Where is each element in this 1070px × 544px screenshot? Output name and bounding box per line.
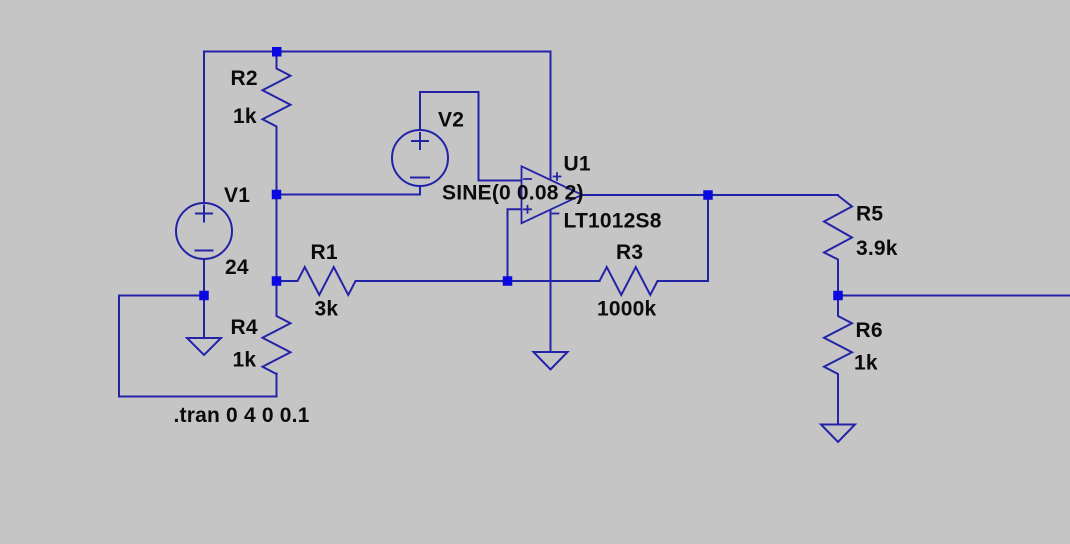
svg-text:3.9k: 3.9k [856,237,898,260]
junction op-amp output [703,190,713,200]
ground G3 (below R6) [821,425,855,443]
svg-text:R4: R4 [231,316,258,339]
resistor R6 [824,296,852,425]
svg-text:R2: R2 [231,67,258,90]
svg-text:LT1012S8: LT1012S8 [564,210,662,233]
wire op-amp output to node [582,194,708,196]
svg-text:R3: R3 [616,241,643,264]
wire V1 minus loop to R4 bottom [119,296,277,397]
wire mid column junction to R1 junction [276,195,278,282]
wire R1 to R3 segment [508,280,600,282]
svg-text:SINE(0 0.08 2): SINE(0 0.08 2) [442,182,584,205]
wire R3 right lead up to output node [707,195,709,281]
junction non-inverting node [503,276,513,286]
svg-text:1k: 1k [233,105,257,128]
junction R1 left [272,276,282,286]
wire op-amp V- pin to ground [550,210,552,352]
svg-text:R1: R1 [311,241,338,264]
junction V1/V2/R2 node [272,190,282,200]
resistor R1 [277,267,508,295]
svg-text:V2: V2 [438,109,464,132]
svg-text:R5: R5 [856,203,883,226]
junction top rail / R2 [272,47,282,57]
svg-text:24: 24 [225,256,249,279]
resistor R2 [263,52,291,195]
wire left column to V1 top [203,52,205,204]
voltage source V1 [176,203,232,259]
wire top rail [204,51,551,53]
junction V1 minus [199,291,209,301]
svg-text:U1: U1 [564,153,591,176]
wire non-inverting feed [508,209,522,281]
wire V2 top loop to op-amp inverting input [420,92,522,181]
ground G2 (below op-amp) [534,352,568,370]
svg-text:3k: 3k [315,298,339,321]
svg-text:R6: R6 [856,319,883,342]
resistor R5 [824,196,852,296]
wire V1 bottom pin [203,259,205,296]
wire divider output [838,295,1070,297]
resistor R3 [600,267,709,295]
svg-text:.tran 0 4 0 0.1: .tran 0 4 0 0.1 [174,404,310,427]
wire output node to R5 [708,194,838,196]
svg-text:1k: 1k [854,352,878,375]
voltage source V2 [392,130,448,186]
resistor R4 [263,281,291,374]
svg-text:V1: V1 [224,184,250,207]
junction divider node [833,291,843,301]
op-amp U1 [522,166,583,223]
svg-text:1000k: 1000k [597,298,657,321]
wire op-amp V+ pin from top rail [550,52,552,180]
svg-text:1k: 1k [233,349,257,372]
wire node to V2 bottom pin [277,187,421,195]
ground G1 (below V1) [187,296,221,356]
